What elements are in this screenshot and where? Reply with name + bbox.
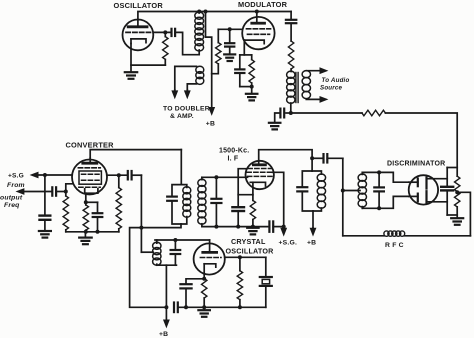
wire IF screen to SG xyxy=(273,172,286,228)
svg-text:To Audio: To Audio xyxy=(322,77,350,84)
arrow audio top xyxy=(306,68,327,73)
capacitor mod grid bypass xyxy=(225,28,234,54)
resistor xtal cathode xyxy=(202,279,207,309)
capacitor mod plate coupling xyxy=(286,12,296,42)
IF tube V4 xyxy=(246,161,274,189)
wire B+ dropper xyxy=(204,10,212,108)
arrow to doubler 1 xyxy=(172,90,177,98)
svg-text:TO DOUBLER: TO DOUBLER xyxy=(163,106,210,113)
wire RFC return left xyxy=(343,235,384,237)
modulator tube V2 xyxy=(242,10,274,49)
label To Audio xyxy=(322,77,350,84)
capacitor audio return xyxy=(275,109,293,123)
capacitor injection input xyxy=(52,187,66,195)
label MODULATOR xyxy=(238,0,288,9)
resistor mod plate xyxy=(288,41,293,72)
transformer audio secondary xyxy=(302,71,310,99)
label CONVERTER xyxy=(66,140,115,149)
wire B+ feed bus xyxy=(291,112,362,114)
wire link top to arrow xyxy=(175,66,197,92)
wire conv cathode xyxy=(85,193,87,205)
arrow +B xtal xyxy=(164,307,169,327)
wire RFC return right xyxy=(404,235,470,237)
ground mod grid bypass xyxy=(224,54,235,61)
capacitor xtal series xyxy=(174,303,178,313)
wire disc output tap xyxy=(456,191,471,236)
resistor conv cathode xyxy=(83,205,88,232)
wire xtal tank top xyxy=(155,239,210,242)
arrow audio bottom xyxy=(306,97,327,102)
ground converter xyxy=(79,232,92,244)
svg-text:+S.G: +S.G xyxy=(8,172,24,179)
capacitor disc tank xyxy=(374,171,384,210)
wire grid cap to tank coil xyxy=(175,32,199,54)
label Source xyxy=(320,84,343,91)
capacitor osc grid xyxy=(172,29,176,36)
resistor IF cathode xyxy=(250,200,255,226)
label output xyxy=(0,195,23,202)
label +B IF xyxy=(307,239,316,246)
resistor xtal grid leak xyxy=(237,257,242,309)
svg-text:I. F: I. F xyxy=(228,155,239,162)
ground disc xyxy=(451,218,463,225)
svg-text:Freq: Freq xyxy=(4,202,20,209)
ground audio return xyxy=(269,123,281,130)
wire coupling drop xyxy=(342,158,344,236)
label +B osc xyxy=(206,121,215,128)
crystal Y1 xyxy=(260,257,272,307)
label DISCRIMINATOR xyxy=(387,160,445,167)
inductor disc secondary xyxy=(358,172,366,208)
label Freq xyxy=(4,202,20,209)
inductor RFC xyxy=(384,231,405,236)
transformer core xyxy=(296,73,298,103)
resistor conv screen xyxy=(116,175,121,232)
wire injection to coil tap xyxy=(141,251,153,253)
capacitor disc output xyxy=(441,187,453,215)
wire conv grid1 xyxy=(64,184,73,193)
label OSCILLATOR xyxy=(114,1,164,10)
svg-text:1500-Kc.: 1500-Kc. xyxy=(219,148,249,155)
inductor xtal tank xyxy=(153,240,161,265)
wire IF plate xyxy=(259,150,312,171)
ground xtal xyxy=(198,307,210,317)
wire osc cathode xyxy=(131,44,165,66)
label I.F xyxy=(228,155,239,162)
resistor conv grid1 xyxy=(63,192,68,232)
capacitor SG bypass xyxy=(40,216,51,231)
capacitor IF screen bypass xyxy=(232,207,244,226)
wire xtal cathode xyxy=(203,264,205,279)
label From xyxy=(7,182,25,189)
label 1500-Kc. xyxy=(219,148,249,155)
label +S.G. xyxy=(279,239,298,246)
svg-text:DISCRIMINATOR: DISCRIMINATOR xyxy=(387,160,445,167)
wire link bottom xyxy=(187,84,196,90)
arrow to doubler 2 xyxy=(185,90,190,98)
svg-text:MODULATOR: MODULATOR xyxy=(238,0,288,9)
label OSCILLATOR xtal xyxy=(226,247,275,256)
wire mod cathode xyxy=(240,40,252,55)
ground mod cathode xyxy=(246,94,258,101)
resistor B+ dropping xyxy=(362,110,385,116)
wire IF ground rail xyxy=(202,225,268,228)
ground SG bypass xyxy=(39,231,51,238)
wire bus to discriminator xyxy=(385,113,457,176)
svg-text:From: From xyxy=(7,182,25,189)
inductor link coil L2 xyxy=(196,66,204,84)
capacitor tank1 xyxy=(167,185,181,224)
inductor tank2 IF grid xyxy=(198,177,206,226)
label TO DOUBLER xyxy=(163,106,210,113)
arrow +B IF xyxy=(310,211,315,235)
svg-text:CONVERTER: CONVERTER xyxy=(66,140,115,149)
label +S.G left xyxy=(8,172,24,179)
svg-text:R F C: R F C xyxy=(385,242,404,249)
svg-text:Source: Source xyxy=(320,84,343,91)
arrow +S.G left xyxy=(31,172,72,177)
svg-text:OSCILLATOR: OSCILLATOR xyxy=(226,247,275,256)
crystal osc tube V6 xyxy=(194,240,225,275)
arrow +S.G. xyxy=(281,228,286,235)
capacitor IF coupling xyxy=(311,154,343,162)
capacitor mod cathode xyxy=(235,55,252,87)
capacitor conv osc grid xyxy=(93,202,103,232)
ground osc cathode xyxy=(125,65,137,79)
wire osc grid xyxy=(153,31,171,33)
inductor tank1 xyxy=(181,185,191,224)
wire tank1 stem top xyxy=(180,150,182,185)
label R.F.C xyxy=(385,242,404,249)
svg-text:+B: +B xyxy=(307,239,316,246)
svg-text:CRYSTAL: CRYSTAL xyxy=(231,237,266,246)
wire conv osc grid tap xyxy=(84,201,97,204)
wire disc rectifier node xyxy=(447,168,457,187)
wire xtal tank bottom xyxy=(157,265,177,309)
label CRYSTAL xyxy=(231,237,266,246)
resistor osc grid leak xyxy=(163,31,168,65)
discriminator tube V5 xyxy=(409,175,448,204)
capacitor xtal cathode bypass xyxy=(180,277,205,307)
arrow +B osc xyxy=(209,108,214,115)
wire osc plate to B+ bus xyxy=(138,12,291,20)
label AMP xyxy=(170,113,194,120)
transformer audio primary xyxy=(287,71,295,113)
wire ground drop left xyxy=(130,228,164,308)
converter tube V3 xyxy=(72,158,107,195)
inductor osc tank L1 xyxy=(195,10,204,51)
wire tank1 to junction A xyxy=(141,224,181,228)
svg-text:+B: +B xyxy=(159,331,168,338)
oscillator tube V1 xyxy=(122,20,153,51)
svg-text:OSCILLATOR: OSCILLATOR xyxy=(114,1,164,10)
label +B xtal xyxy=(159,331,168,338)
wire disc bottom xyxy=(447,214,457,216)
wire IF grid lead xyxy=(202,176,248,178)
wire IF cathode xyxy=(252,182,254,200)
wire conv screen lead xyxy=(107,174,127,177)
arrow from output freq xyxy=(17,189,51,194)
svg-text:output: output xyxy=(0,195,23,202)
wire injection line xyxy=(140,175,143,252)
wire mod grid xyxy=(218,28,242,30)
svg-text:+S.G.: +S.G. xyxy=(279,239,298,246)
wire SG drop xyxy=(43,174,46,215)
capacitor tank3 xyxy=(297,171,313,211)
wire conv ground rail xyxy=(66,230,119,233)
capacitor SG decoupling xyxy=(269,221,283,231)
capacitor xtal tank xyxy=(171,240,181,265)
ground IF cathode xyxy=(247,228,258,235)
resistor mod grid xyxy=(212,29,221,73)
inductor tank3 xyxy=(312,171,325,211)
capacitor tank2 xyxy=(211,176,221,227)
capacitor conv injection xyxy=(128,171,142,179)
wire xtal grid xyxy=(225,256,266,259)
wire IF screen bypass xyxy=(238,169,253,207)
wire disc tank top xyxy=(362,172,409,182)
wire converter plate xyxy=(90,150,181,158)
svg-text:+B: +B xyxy=(206,121,215,128)
wire disc tank bottom xyxy=(362,196,409,208)
resistor mod cathode xyxy=(249,55,254,93)
svg-text:& AMP.: & AMP. xyxy=(170,113,194,120)
resistor disc load xyxy=(455,176,460,217)
wire xtal bottom rail xyxy=(179,306,266,309)
wire disc tap xyxy=(341,189,360,192)
